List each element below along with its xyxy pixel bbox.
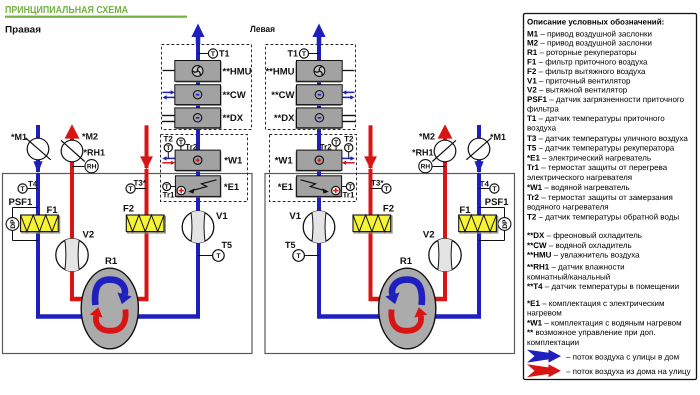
svg-text:T5: T5 [222, 240, 233, 250]
svg-text:R1: R1 [400, 256, 413, 267]
exhaust duct wire: horizontal through rotor (left) [70, 297, 149, 301]
air damper actuator M2 (left) [61, 140, 85, 162]
svg-text:– поток воздуха из дома на ул: – поток воздуха из дома на улицу [566, 367, 691, 376]
svg-text:T3*: T3* [134, 179, 147, 188]
exhaust fan V2 (right) [429, 239, 461, 272]
svg-text:**HMU – увлажнитель воздуха: **HMU – увлажнитель воздуха [527, 251, 640, 260]
svg-text:*W1: *W1 [275, 156, 294, 167]
label Pravaya (right-hand unit) [5, 25, 41, 36]
water heater W1 (left) [162, 150, 221, 172]
svg-text:PSF1 – датчик загрязненности п: PSF1 – датчик загрязненности приточного [527, 95, 685, 104]
svg-text:T4: T4 [28, 180, 38, 189]
svg-text:T1 – датчик температуры приточ: T1 – датчик температуры приточного [527, 114, 665, 123]
label *M1 (left) [11, 132, 27, 142]
label Levaya (left-hand unit) [250, 24, 275, 34]
svg-text:Правая: Правая [5, 25, 41, 36]
legend red flow arrow: house to street [527, 364, 691, 377]
svg-text:комнатный/канальный: комнатный/канальный [527, 272, 610, 281]
exhaust duct wire: horizontal through rotor (right) [369, 297, 448, 301]
page title [5, 5, 187, 18]
water cooler CW (right) [296, 85, 355, 106]
label **HMU (right) [265, 66, 294, 77]
svg-text:**CW: **CW [223, 90, 246, 101]
room temperature sensor T4 (right) [479, 180, 499, 193]
svg-text:**T4 – датчик температуры в по: **T4 – датчик температуры в помещении [527, 282, 679, 291]
exhaust air outlet arrow to street (left) [65, 124, 80, 138]
supply duct wire: vertical to unit bottom (left) [36, 173, 40, 317]
label *RH1 (right) [412, 148, 434, 158]
svg-text:комплектации: комплектации [527, 338, 579, 347]
svg-text:F2: F2 [123, 204, 134, 215]
svg-text:T4: T4 [480, 180, 490, 189]
air damper actuator M2 (right) [432, 140, 456, 162]
label V2 (right) [423, 230, 435, 241]
svg-text:*E1: *E1 [278, 182, 294, 193]
label **HMU (left) [223, 66, 252, 77]
legend box [524, 14, 697, 380]
dashed options box HMU/CW/DX (left) [162, 45, 252, 130]
label *E1 (right) [278, 182, 294, 193]
supply temperature sensor T1 (left) [198, 48, 230, 58]
exhaust air outlet arrow to street (right) [438, 124, 453, 138]
label V2 (left) [83, 230, 95, 241]
label *RH1 (left) [84, 148, 106, 158]
electric heater E1 (left) [175, 176, 221, 198]
svg-text:**DX: **DX [274, 113, 295, 124]
unit casing box (left scheme) [3, 174, 253, 354]
svg-text:F2: F2 [383, 204, 394, 215]
svg-text:F1 – фильтр приточного воздуха: F1 – фильтр приточного воздуха [527, 58, 648, 67]
svg-text:нагревом: нагревом [527, 309, 562, 318]
svg-text:Tr1 – термостат защиты от пере: Tr1 – термостат защиты от перегрева [527, 163, 668, 172]
supply air outlet arrow to house (left) [191, 24, 204, 45]
svg-text:*E1: *E1 [224, 182, 240, 193]
exhaust duct wire: vertical up to outlet (right) [443, 138, 447, 299]
svg-text:**DX: **DX [223, 113, 244, 124]
filter pressure sensor PSF1 with DP tap lines (right) [479, 208, 511, 241]
label F1 (right) [459, 205, 471, 216]
overheat thermostat Tr1 (right) [342, 183, 355, 200]
svg-text:T2: T2 [164, 135, 174, 144]
label **CW (right) [271, 90, 294, 101]
svg-text:RH: RH [87, 164, 97, 171]
humidity sensor RH1 (right) [419, 160, 445, 173]
supply fan V1 (right) [303, 211, 335, 243]
svg-text:T3 – датчик температуры улично: T3 – датчик температуры уличного воздуха [527, 134, 688, 143]
svg-text:электрического нагревателя: электрического нагревателя [527, 173, 632, 182]
svg-text:T1: T1 [287, 48, 298, 58]
svg-text:T3*: T3* [371, 179, 384, 188]
label *M1 (right) [490, 132, 506, 142]
svg-text:**DX – фреоновый охладитель: **DX – фреоновый охладитель [527, 231, 642, 240]
water cooler CW (left) [163, 85, 222, 106]
label **DX (right) [274, 113, 295, 124]
legend blue flow arrow: street to house [527, 350, 679, 363]
svg-text:*E1 – комплектация с электриче: *E1 – комплектация с электрическим [527, 299, 665, 308]
svg-text:T1: T1 [219, 48, 230, 58]
exhaust fan V2 (left) [56, 239, 88, 272]
svg-text:ПРИНЦИПИАЛЬНАЯ СХЕМА: ПРИНЦИПИАЛЬНАЯ СХЕМА [5, 5, 128, 16]
svg-text:R1: R1 [105, 256, 118, 267]
supply air outlet arrow to house (right) [312, 24, 325, 45]
rotor label R1 (left) [105, 256, 118, 267]
svg-text:*W1 – комплектация с водяным н: *W1 – комплектация с водяным нагревом [527, 318, 682, 327]
svg-text:**CW – водяной охладитель: **CW – водяной охладитель [527, 241, 632, 250]
svg-text:Описание условных обозначений:: Описание условных обозначений: [527, 18, 664, 27]
svg-text:V1: V1 [289, 211, 301, 222]
label PSF1 (right) [485, 197, 509, 208]
label *M2 (right) [419, 132, 435, 142]
label *W1 (left) [224, 156, 243, 167]
svg-text:Левая: Левая [250, 24, 275, 34]
room temperature sensor T4 (left) [18, 180, 38, 193]
svg-text:*W1 – водяной нагреватель: *W1 – водяной нагреватель [527, 183, 630, 192]
humidifier HMU (right) [296, 61, 355, 83]
svg-text:Tr2 – термостат защиты от заме: Tr2 – термостат защиты от замерзания [527, 193, 673, 202]
supply duct wire: horizontal through rotor (left) [36, 314, 200, 318]
svg-text:**HMU: **HMU [223, 66, 252, 77]
svg-text:**HMU: **HMU [265, 66, 294, 77]
svg-text:Tr2: Tr2 [185, 142, 198, 151]
svg-text:V1 – приточный вентилятор: V1 – приточный вентилятор [527, 76, 631, 85]
outdoor temperature sensor T3* (right) [371, 179, 392, 194]
recuperator temperature sensor T5 (left) [198, 240, 232, 261]
air damper actuator M1 (right) [466, 138, 491, 160]
svg-text:** возможное управление при до: ** возможное управление при доп. [527, 328, 656, 337]
label F1 (left) [47, 205, 59, 216]
dashed heaters box W1/E1 (left) [161, 135, 248, 202]
supply filter F1 (left) [21, 215, 60, 233]
rotary recuperator R1 (right) [379, 268, 436, 349]
water heater W1 (right) [296, 150, 355, 172]
svg-text:*RH1: *RH1 [412, 148, 434, 158]
legend entries [527, 29, 688, 347]
legend title [527, 18, 664, 27]
label *E1 (left) [224, 182, 240, 193]
svg-text:T5: T5 [285, 240, 296, 250]
return water sensor T2 (right) [344, 135, 354, 159]
outdoor temperature sensor T3* (left) [126, 179, 147, 194]
return water sensor T2 (left) [164, 135, 174, 159]
svg-text:– поток воздуха с улицы в дом: – поток воздуха с улицы в дом [566, 352, 679, 361]
svg-text:*M1: *M1 [490, 132, 506, 142]
svg-text:Tr1: Tr1 [342, 191, 355, 200]
supply temperature sensor T1 (right) [287, 48, 319, 58]
frost protection thermostat Tr2 (right) [320, 138, 341, 152]
rotary recuperator R1 (left) [81, 268, 138, 349]
svg-text:RH: RH [421, 164, 431, 171]
supply duct wire: vertical to unit bottom (right) [477, 173, 481, 317]
recuperator temperature sensor T5 (right) [285, 240, 319, 261]
supply fan V1 (left) [182, 211, 214, 243]
freon cooler DX (left) [162, 108, 222, 129]
supply duct wire: horizontal through rotor (right) [317, 314, 481, 318]
svg-text:V1: V1 [216, 211, 228, 222]
dashed options box HMU/CW/DX (right) [266, 45, 356, 130]
svg-text:**RH1 – датчик влажности: **RH1 – датчик влажности [527, 263, 625, 272]
label *W1 (right) [275, 156, 294, 167]
air damper actuator M1 (left) [26, 138, 51, 160]
label *M2 (left) [82, 132, 98, 142]
humidifier HMU (left) [163, 61, 222, 83]
svg-text:M2 – привод воздушной заслонки: M2 – привод воздушной заслонки [527, 39, 652, 48]
unit casing box (right scheme) [265, 174, 515, 354]
svg-text:T2: T2 [344, 135, 354, 144]
supply duct wire: stack vertical (left) [196, 37, 200, 317]
humidity sensor RH1 (left) [72, 160, 98, 173]
svg-text:F2 – фильтр вытяжного воздуха: F2 – фильтр вытяжного воздуха [527, 67, 646, 76]
svg-text:DP: DP [10, 219, 17, 229]
freon cooler DX (right) [296, 108, 356, 129]
label **DX (left) [223, 113, 244, 124]
svg-text:*M1: *M1 [11, 132, 27, 142]
svg-text:Tr1: Tr1 [163, 191, 176, 200]
svg-text:воздуха: воздуха [527, 123, 557, 132]
svg-text:R1 – роторные рекуператоры: R1 – роторные рекуператоры [527, 48, 637, 57]
supply filter F1 (right) [459, 215, 498, 233]
supply duct wire: stack vertical (right) [317, 37, 321, 317]
svg-text:фильтра: фильтра [527, 105, 559, 114]
overheat thermostat Tr1 (left) [163, 183, 176, 200]
frost protection thermostat Tr2 (left) [177, 138, 198, 152]
label V1 (right) [289, 211, 301, 222]
svg-text:Tr2: Tr2 [320, 142, 333, 151]
svg-text:V2: V2 [423, 230, 435, 241]
exhaust filter F2 (right) [353, 215, 392, 233]
svg-text:водяного нагревателя: водяного нагревателя [527, 203, 609, 212]
rotor label R1 (right) [400, 256, 413, 267]
label **CW (left) [223, 90, 246, 101]
filter pressure sensor PSF1 with DP tap lines (left) [6, 208, 38, 241]
label PSF1 (left) [9, 197, 33, 208]
supply duct wire: fresh air inlet M1 line (right) [474, 125, 483, 173]
svg-text:V2 – вытяжной вентилятор: V2 – вытяжной вентилятор [527, 86, 628, 95]
label F2 (right) [383, 204, 394, 215]
exhaust duct wire: inlet from house T3 line (left) [140, 125, 153, 299]
exhaust duct wire: inlet from house T3 line (right) [364, 125, 377, 299]
svg-text:PSF1: PSF1 [9, 197, 33, 208]
svg-text:T5 – датчик температуры рекупе: T5 – датчик температуры рекуператора [527, 144, 675, 153]
svg-text:**CW: **CW [271, 90, 294, 101]
svg-text:F1: F1 [459, 205, 471, 216]
svg-text:PSF1: PSF1 [485, 197, 509, 208]
svg-text:T2 – датчик температуры обрат: T2 – датчик температуры обратной воды [527, 212, 679, 221]
dashed heaters box W1/E1 (right) [270, 135, 357, 202]
svg-text:M1 – привод воздушной заслонки: M1 – привод воздушной заслонки [527, 29, 652, 38]
svg-text:*W1: *W1 [224, 156, 243, 167]
svg-text:*E1 – электрический нагревател: *E1 – электрический нагреватель [527, 153, 651, 162]
svg-text:*M2: *M2 [419, 132, 435, 142]
label F2 (left) [123, 204, 134, 215]
electric heater E1 (right) [296, 176, 342, 198]
svg-text:V2: V2 [83, 230, 95, 241]
svg-text:*RH1: *RH1 [84, 148, 106, 158]
svg-text:F1: F1 [47, 205, 59, 216]
exhaust filter F2 (left) [126, 215, 165, 233]
supply duct wire: fresh air inlet M1 line (left) [33, 125, 42, 173]
label V1 (left) [216, 211, 228, 222]
svg-text:*M2: *M2 [82, 132, 98, 142]
exhaust duct wire: vertical up to outlet (left) [70, 138, 74, 299]
svg-text:DP: DP [502, 219, 509, 229]
